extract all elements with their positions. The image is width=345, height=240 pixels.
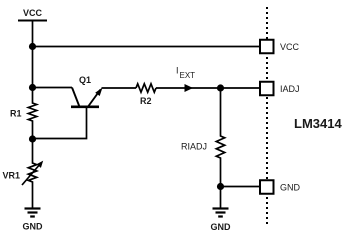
svg-text:R1: R1 [10,109,22,119]
junction node at VCC rail [29,43,36,50]
junction node at RIADJ bottom [217,183,224,190]
current arrow IEXT [176,66,195,93]
svg-text:IADJ: IADJ [280,84,300,94]
wire rail down to Q1/R1 node [32,47,34,88]
svg-text:Q1: Q1 [79,75,91,85]
svg-text:GND: GND [280,182,301,192]
svg-text:VR1: VR1 [3,171,21,181]
junction node at R1 bottom / base [29,135,36,142]
junction node at R1 top [29,84,36,91]
pin VCC [260,40,300,54]
resistor R2 [136,84,156,106]
variable resistor VR1 [3,139,44,208]
ground symbol left [23,209,44,232]
svg-text:LM3414: LM3414 [294,116,342,131]
device label LM3414 [294,116,342,131]
wire Q1 emitter to R2 [102,87,137,89]
svg-text:VCC: VCC [280,42,300,52]
wire VCC rail top [32,21,34,47]
svg-text:RIADJ: RIADJ [181,142,207,152]
pin GND [260,180,301,194]
transistor Q1 [71,75,103,107]
pin IADJ [260,82,300,96]
junction node at RIADJ top [217,84,224,91]
wire RIADJ bottom to ground [220,187,222,208]
wire R2 to IADJ pin [156,87,260,89]
svg-text:I: I [176,66,179,76]
svg-text:R2: R2 [140,96,152,106]
resistor R1 [10,88,37,140]
wire to Q1 collector [33,87,73,89]
svg-text:EXT: EXT [180,71,196,80]
svg-text:GND: GND [23,222,44,232]
wire Q1 base to R1/VR1 node [33,107,87,139]
ground symbol middle [211,209,232,233]
dashed device boundary line [266,7,268,227]
power symbol VCC [18,8,47,21]
svg-text:GND: GND [211,222,232,232]
wire RIADJ bottom to GND pin [221,186,261,188]
svg-text:VCC: VCC [23,8,43,18]
resistor RIADJ [181,88,225,187]
wire to VCC pin [33,46,261,48]
